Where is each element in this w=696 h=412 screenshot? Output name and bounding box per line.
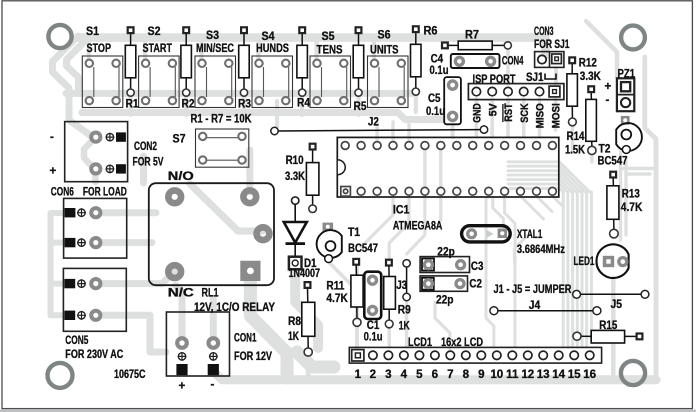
resistor R12 bbox=[567, 57, 578, 125]
svg-text:13: 13 bbox=[537, 368, 550, 381]
svg-text:+: + bbox=[605, 80, 612, 93]
mounting hole top-right bbox=[621, 26, 645, 50]
diode D1 bbox=[284, 197, 307, 269]
svg-text:XTAL1: XTAL1 bbox=[517, 228, 543, 241]
resistor R13 bbox=[607, 172, 619, 238]
svg-text:C2: C2 bbox=[469, 278, 482, 291]
switch S1 bbox=[82, 56, 123, 108]
svg-text:MOSI: MOSI bbox=[551, 103, 563, 128]
wire: CON1 pads up into relay bbox=[176, 286, 214, 341]
svg-text:9: 9 bbox=[478, 368, 485, 381]
svg-text:22p: 22p bbox=[437, 245, 455, 258]
svg-text:LED1: LED1 bbox=[574, 255, 595, 268]
svg-text:1: 1 bbox=[355, 368, 362, 381]
svg-text:CON2: CON2 bbox=[134, 140, 157, 153]
wire: J3 bottom down bbox=[405, 301, 408, 347]
capacitor C5 bbox=[444, 77, 461, 124]
COMPONENTS bbox=[82, 26, 511, 167]
resistor R9 bbox=[384, 260, 396, 328]
svg-text:J4: J4 bbox=[529, 299, 541, 312]
svg-text:0.1u: 0.1u bbox=[364, 330, 383, 343]
wire: left rail CON6/CON5 bbox=[51, 213, 67, 316]
svg-text:R10: R10 bbox=[286, 154, 304, 167]
capacitor C3 bbox=[420, 257, 469, 273]
crystal XTAL1 bbox=[462, 226, 511, 242]
svg-text:S1: S1 bbox=[86, 25, 99, 38]
svg-text:22p: 22p bbox=[436, 294, 454, 307]
svg-text:R11: R11 bbox=[326, 280, 344, 293]
switch S5 bbox=[310, 56, 351, 108]
resistor R8 bbox=[302, 282, 315, 356]
svg-text:R1 - R7 = 10K: R1 - R7 = 10K bbox=[191, 112, 253, 125]
svg-text:FOR 5V: FOR 5V bbox=[133, 156, 164, 169]
wire: R9 bottom down bbox=[388, 328, 391, 347]
relay RL1 bbox=[149, 183, 274, 285]
wire: top-right diagonal to PZ1 bbox=[586, 21, 617, 77]
connector CON6 bbox=[64, 198, 127, 258]
wire jumper J2 bbox=[271, 126, 488, 135]
switch S4 bbox=[252, 56, 293, 108]
wire: CON5 row2 toward CON1 bbox=[96, 315, 166, 352]
resistor R2 bbox=[181, 27, 192, 96]
svg-text:C3: C3 bbox=[471, 260, 484, 273]
wire: verticals inside IC socket bbox=[425, 149, 441, 187]
jumper symbol next to SJ1 label bbox=[545, 74, 556, 80]
svg-text:16: 16 bbox=[583, 368, 596, 381]
svg-text:SCK: SCK bbox=[519, 103, 531, 123]
wire: stubs bus2 to IC top pins bbox=[377, 122, 409, 141]
svg-text:ATMEGA8A: ATMEGA8A bbox=[393, 220, 443, 233]
switch S2 bbox=[139, 56, 180, 108]
svg-text:10675C: 10675C bbox=[114, 368, 146, 381]
LED LED1 bbox=[596, 244, 628, 278]
svg-text:START: START bbox=[143, 42, 173, 55]
svg-text:16x2 LCD: 16x2 LCD bbox=[441, 336, 483, 349]
capacitor C1 bbox=[364, 272, 381, 319]
wire: fan diagonals from IC bottom pins into band bbox=[521, 196, 564, 219]
svg-text:6: 6 bbox=[432, 368, 439, 381]
wire: SJ1 to ISP square bbox=[554, 68, 558, 84]
mounting hole bottom-left bbox=[48, 363, 73, 388]
svg-text:8: 8 bbox=[463, 368, 470, 381]
ISP port connector bbox=[468, 84, 564, 100]
TRACES bbox=[51, 21, 657, 380]
svg-text:7: 7 bbox=[447, 368, 453, 381]
svg-text:LCD1: LCD1 bbox=[408, 336, 432, 349]
wire: switch-row bus bbox=[66, 90, 416, 97]
svg-text:S6: S6 bbox=[378, 28, 391, 41]
wire: diagonal under C2 to LCD bbox=[435, 302, 450, 350]
svg-text:1K: 1K bbox=[399, 320, 410, 333]
CENTER bbox=[271, 52, 602, 364]
svg-text:12: 12 bbox=[521, 368, 534, 381]
wire: diagonals IC bottom-left region bbox=[361, 197, 441, 258]
svg-text:CON3: CON3 bbox=[534, 25, 554, 38]
svg-text:-: - bbox=[211, 378, 215, 391]
svg-text:R12: R12 bbox=[579, 57, 597, 70]
RIGHT bbox=[490, 57, 649, 343]
svg-text:R4: R4 bbox=[297, 97, 310, 110]
bottom page strip bbox=[0, 410, 696, 412]
svg-text:UNITS: UNITS bbox=[370, 43, 399, 56]
svg-text:J3: J3 bbox=[396, 279, 407, 292]
svg-text:3.3K: 3.3K bbox=[580, 70, 602, 83]
svg-text:10: 10 bbox=[490, 368, 503, 381]
wire: stubs resistor bottoms to lower bus bbox=[131, 95, 416, 115]
svg-text:GND: GND bbox=[472, 103, 484, 123]
wire: J2 left stub bbox=[275, 101, 279, 127]
svg-text:R8: R8 bbox=[288, 315, 301, 328]
wire: central vertical bundle to LCD bbox=[486, 196, 527, 347]
wire: R12 bottom stub bbox=[571, 126, 574, 152]
wire: nested bundle from IC right bbox=[508, 162, 590, 192]
wire: C5 pad stub down bbox=[451, 122, 455, 137]
svg-text:CON5: CON5 bbox=[65, 334, 88, 347]
svg-text:RL1: RL1 bbox=[202, 287, 219, 300]
svg-text:1.5K: 1.5K bbox=[565, 144, 586, 157]
resistor R10 bbox=[306, 144, 319, 213]
wire: relay TR pad up bbox=[246, 150, 253, 192]
svg-text:4.7K: 4.7K bbox=[621, 201, 643, 214]
svg-text:S5: S5 bbox=[322, 30, 335, 43]
wire jumper J3 bbox=[403, 260, 410, 301]
svg-text:4: 4 bbox=[401, 368, 408, 381]
wire: D1 pad down to patch bbox=[295, 268, 318, 348]
connector CON1 bbox=[166, 312, 229, 376]
svg-text:ISP PORT: ISP PORT bbox=[473, 73, 516, 86]
svg-text:R6: R6 bbox=[424, 25, 439, 38]
svg-text:SJ1: SJ1 bbox=[526, 71, 544, 84]
IC socket IC1 bbox=[337, 137, 559, 197]
svg-text:T1: T1 bbox=[348, 226, 360, 239]
switch S3 bbox=[195, 56, 236, 108]
svg-text:S4: S4 bbox=[262, 30, 275, 43]
svg-text:14: 14 bbox=[552, 368, 565, 381]
svg-text:R14: R14 bbox=[567, 130, 585, 143]
svg-text:R1: R1 bbox=[126, 98, 139, 111]
svg-text:CON1: CON1 bbox=[234, 332, 257, 345]
wire: CON6 rows to relay bbox=[96, 213, 156, 243]
svg-text:N/O: N/O bbox=[168, 170, 194, 183]
pin label RST overline bbox=[502, 104, 504, 122]
svg-text:15: 15 bbox=[568, 368, 581, 381]
wire: CON2 internal zigzag bbox=[84, 138, 95, 182]
svg-text:N/C: N/C bbox=[168, 286, 195, 299]
svg-text:3: 3 bbox=[385, 368, 392, 381]
svg-text:CON6: CON6 bbox=[51, 186, 74, 199]
svg-text:BC547: BC547 bbox=[348, 242, 378, 255]
resistor R4 bbox=[297, 27, 308, 96]
svg-text:FOR SJ1: FOR SJ1 bbox=[534, 38, 570, 51]
wire: LED down to bus bbox=[611, 278, 616, 376]
svg-text:5V: 5V bbox=[487, 103, 499, 116]
wire: T1 emitter diagonal to R11 bbox=[329, 262, 352, 286]
svg-text:R5: R5 bbox=[354, 100, 367, 113]
switch S7 bbox=[196, 129, 249, 167]
svg-text:11: 11 bbox=[506, 368, 519, 381]
wire jumper J5 bbox=[573, 290, 649, 298]
svg-text:-: - bbox=[50, 131, 54, 144]
wire: CON5 row1 to relay pad bbox=[96, 272, 175, 284]
wire jumper J4 bbox=[490, 307, 601, 315]
connector CON5 bbox=[63, 268, 126, 331]
svg-text:+: + bbox=[179, 380, 186, 393]
wire: right rail bbox=[645, 57, 656, 376]
piezo connector PZ1 bbox=[617, 78, 634, 111]
svg-text:TENS: TENS bbox=[317, 43, 343, 56]
svg-text:3.6864MHz: 3.6864MHz bbox=[517, 243, 565, 256]
svg-text:STOP: STOP bbox=[87, 42, 112, 55]
resistor R14 bbox=[586, 86, 597, 154]
svg-text:HUNDS: HUNDS bbox=[256, 42, 289, 55]
capacitor C4 bbox=[451, 54, 500, 68]
svg-text:IC1: IC1 bbox=[393, 204, 410, 217]
svg-text:RST: RST bbox=[503, 103, 515, 122]
wire: R8 bottom to bus bbox=[306, 355, 311, 377]
resistor R11 bbox=[351, 259, 363, 326]
svg-text:S7: S7 bbox=[173, 133, 186, 146]
resistor R3 bbox=[239, 27, 250, 96]
svg-text:0.1u: 0.1u bbox=[426, 105, 445, 118]
svg-text:J2: J2 bbox=[368, 116, 379, 129]
svg-text:R15: R15 bbox=[599, 319, 617, 332]
svg-text:+: + bbox=[50, 165, 57, 178]
svg-text:R9: R9 bbox=[398, 304, 411, 317]
connector CON2 bbox=[65, 122, 128, 182]
wire: T2 pins to right rail bbox=[621, 152, 657, 240]
resistor R7 bbox=[442, 41, 511, 50]
svg-text:S2: S2 bbox=[148, 25, 161, 38]
wire: ISP pins to IC top bbox=[476, 49, 555, 136]
svg-text:R3: R3 bbox=[238, 98, 251, 111]
svg-text:R2: R2 bbox=[182, 98, 195, 111]
svg-text:S3: S3 bbox=[206, 29, 219, 42]
svg-text:1N4007: 1N4007 bbox=[289, 267, 321, 280]
svg-text:3.3K: 3.3K bbox=[285, 170, 306, 183]
connector CON3/SJ1 bbox=[535, 52, 564, 68]
svg-text:-: - bbox=[606, 94, 610, 107]
CONNECTORS bbox=[63, 122, 341, 376]
svg-text:2: 2 bbox=[370, 368, 376, 381]
wire: relay diagonal inside bbox=[190, 184, 263, 231]
wire: top-left inner chevron bbox=[67, 40, 87, 94]
transistor T1 bbox=[317, 223, 342, 263]
wire: bottom bus bbox=[212, 370, 656, 380]
PADS / HOLES bbox=[48, 25, 646, 388]
mounting hole bottom-right bbox=[621, 361, 645, 385]
svg-text:FOR 230V AC: FOR 230V AC bbox=[65, 348, 123, 361]
wire: top power bus bbox=[78, 38, 546, 55]
svg-text:4.7K: 4.7K bbox=[326, 292, 348, 305]
svg-text:R13: R13 bbox=[622, 188, 640, 201]
resistor R1 bbox=[125, 27, 136, 96]
wire: vertical band IC to LCD right bbox=[563, 192, 591, 347]
wire: top-left outer chevron down to CON2 bbox=[53, 36, 96, 139]
svg-text:12V, 1C/O RELAY: 12V, 1C/O RELAY bbox=[194, 301, 275, 314]
resistor R5 bbox=[353, 27, 364, 96]
wire: rail between S7 and relay bbox=[140, 156, 147, 183]
wire: lower bus under switches bbox=[82, 113, 446, 120]
switch S6 bbox=[368, 56, 409, 108]
svg-text:CON4: CON4 bbox=[502, 55, 524, 68]
svg-text:PZ1: PZ1 bbox=[618, 68, 636, 81]
wire: R14 bottom stub bbox=[590, 155, 593, 162]
svg-text:C5: C5 bbox=[428, 92, 441, 105]
svg-text:FOR LOAD: FOR LOAD bbox=[83, 186, 127, 199]
LCD pin numbers 1-16 bbox=[355, 368, 597, 381]
svg-text:J1 - J5 = JUMPER: J1 - J5 = JUMPER bbox=[494, 283, 573, 296]
svg-text:MISO: MISO bbox=[535, 103, 547, 128]
svg-text:5: 5 bbox=[416, 368, 423, 381]
resistor R6 bbox=[411, 26, 422, 95]
wire: trace behind R11 down bbox=[355, 266, 359, 350]
svg-text:FOR 12V: FOR 12V bbox=[234, 350, 272, 363]
transistor T2 bbox=[616, 116, 642, 154]
capacitor C2 bbox=[420, 276, 467, 291]
svg-text:J5: J5 bbox=[611, 298, 623, 311]
resistor R15 bbox=[573, 330, 642, 343]
svg-text:0.1u: 0.1u bbox=[430, 64, 449, 77]
svg-text:R7: R7 bbox=[465, 28, 479, 41]
wire: wide trace from relay square pad down bbox=[250, 280, 287, 378]
wire: stubs bus to switch top pins bbox=[89, 41, 374, 63]
LCD header LCD1 bbox=[349, 347, 601, 363]
svg-text:MIN/SEC: MIN/SEC bbox=[196, 42, 234, 55]
svg-text:1K: 1K bbox=[288, 330, 299, 343]
svg-text:BC547: BC547 bbox=[598, 155, 628, 168]
mounting hole top-left bbox=[48, 25, 71, 48]
